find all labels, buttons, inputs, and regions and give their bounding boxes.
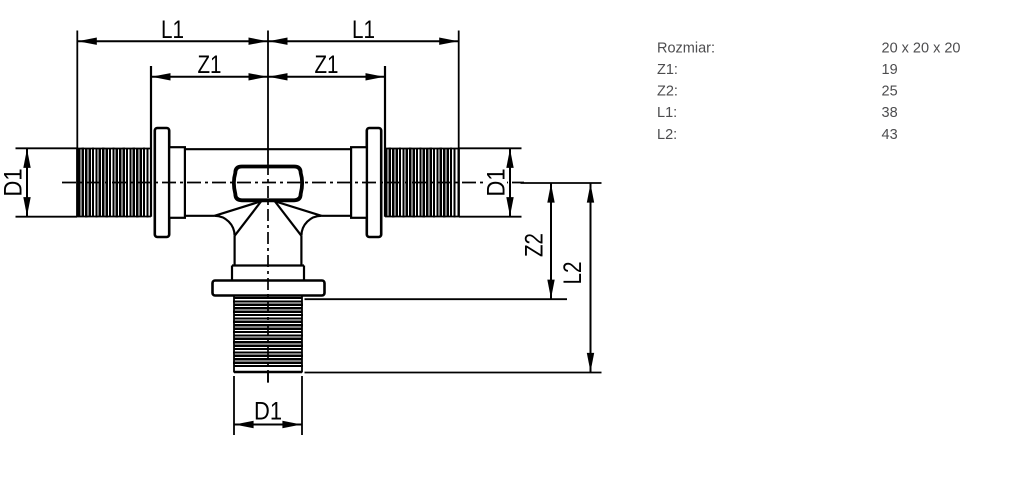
branch wall right bbox=[300, 236, 302, 266]
extension line center vertical (shared L1/Z1) bbox=[267, 31, 269, 164]
dimension D1 right bbox=[459, 148, 522, 216]
svg-text:L2:: L2: bbox=[657, 127, 677, 143]
dimension Z1 right bbox=[268, 51, 385, 217]
svg-text:25: 25 bbox=[882, 84, 898, 100]
dimension D1 left bbox=[0, 148, 77, 216]
svg-text:38: 38 bbox=[882, 105, 898, 121]
fillet right bbox=[301, 216, 321, 236]
body tube bottom edge right bbox=[321, 215, 351, 217]
dimension L2 bbox=[305, 183, 602, 373]
collar right bbox=[351, 147, 367, 218]
branch collar bbox=[232, 266, 304, 282]
cone edge shallow right bbox=[274, 201, 321, 216]
cone edge shallow left bbox=[215, 201, 262, 216]
body tube bottom edge left bbox=[185, 215, 215, 217]
svg-text:Rozmiar:: Rozmiar: bbox=[657, 40, 715, 56]
branch wall left bbox=[234, 236, 236, 266]
branch barbed end bbox=[233, 297, 303, 367]
svg-text:L1: L1 bbox=[352, 16, 375, 44]
cone edge steep right bbox=[275, 202, 301, 236]
nut bbox=[234, 167, 302, 201]
centerline horizontal axis bbox=[62, 182, 524, 184]
cone edge steep left bbox=[235, 202, 261, 236]
svg-text:43: 43 bbox=[882, 127, 898, 143]
branch flange bbox=[213, 281, 325, 296]
flange left bbox=[155, 128, 169, 237]
svg-text:Z2:: Z2: bbox=[657, 84, 678, 100]
dimension Z2 bbox=[305, 183, 602, 299]
centerline vertical axis bbox=[267, 163, 269, 384]
svg-text:Z2: Z2 bbox=[521, 233, 549, 257]
svg-text:L1:: L1: bbox=[657, 105, 677, 121]
svg-text:D1: D1 bbox=[483, 169, 511, 197]
collar left bbox=[169, 147, 185, 218]
dimension D1 bottom bbox=[234, 373, 302, 436]
dimension L1 left bbox=[77, 16, 268, 149]
dimension Z1 left bbox=[151, 51, 268, 217]
barbed end right bbox=[385, 147, 455, 217]
svg-text:Z1:: Z1: bbox=[657, 62, 678, 78]
svg-text:D1: D1 bbox=[254, 397, 282, 425]
svg-text:20 x 20 x 20: 20 x 20 x 20 bbox=[882, 40, 961, 56]
fillet left bbox=[215, 216, 235, 236]
body tube top edge bbox=[185, 148, 351, 150]
svg-text:L1: L1 bbox=[161, 16, 184, 44]
svg-text:Z1: Z1 bbox=[315, 51, 339, 79]
spec table bbox=[657, 40, 961, 142]
svg-text:Z1: Z1 bbox=[198, 51, 222, 79]
svg-text:L2: L2 bbox=[559, 262, 587, 285]
svg-text:19: 19 bbox=[882, 62, 898, 78]
barbed end left bbox=[78, 147, 148, 217]
flange right bbox=[367, 128, 381, 237]
dimension L1 right bbox=[268, 16, 459, 149]
svg-text:D1: D1 bbox=[0, 169, 28, 197]
